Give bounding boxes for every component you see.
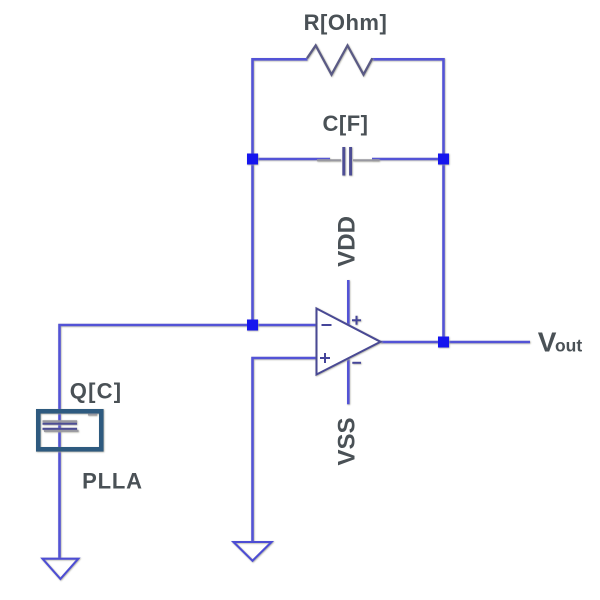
- svg-text:R[Ohm]: R[Ohm]: [304, 10, 388, 35]
- svg-text:Vout: Vout: [538, 327, 583, 358]
- svg-text:VSS: VSS: [333, 417, 360, 465]
- svg-text:Q[C]: Q[C]: [70, 379, 122, 404]
- svg-text:PLLA: PLLA: [82, 469, 143, 494]
- svg-text:C[F]: C[F]: [323, 111, 369, 136]
- svg-text:VDD: VDD: [333, 216, 360, 267]
